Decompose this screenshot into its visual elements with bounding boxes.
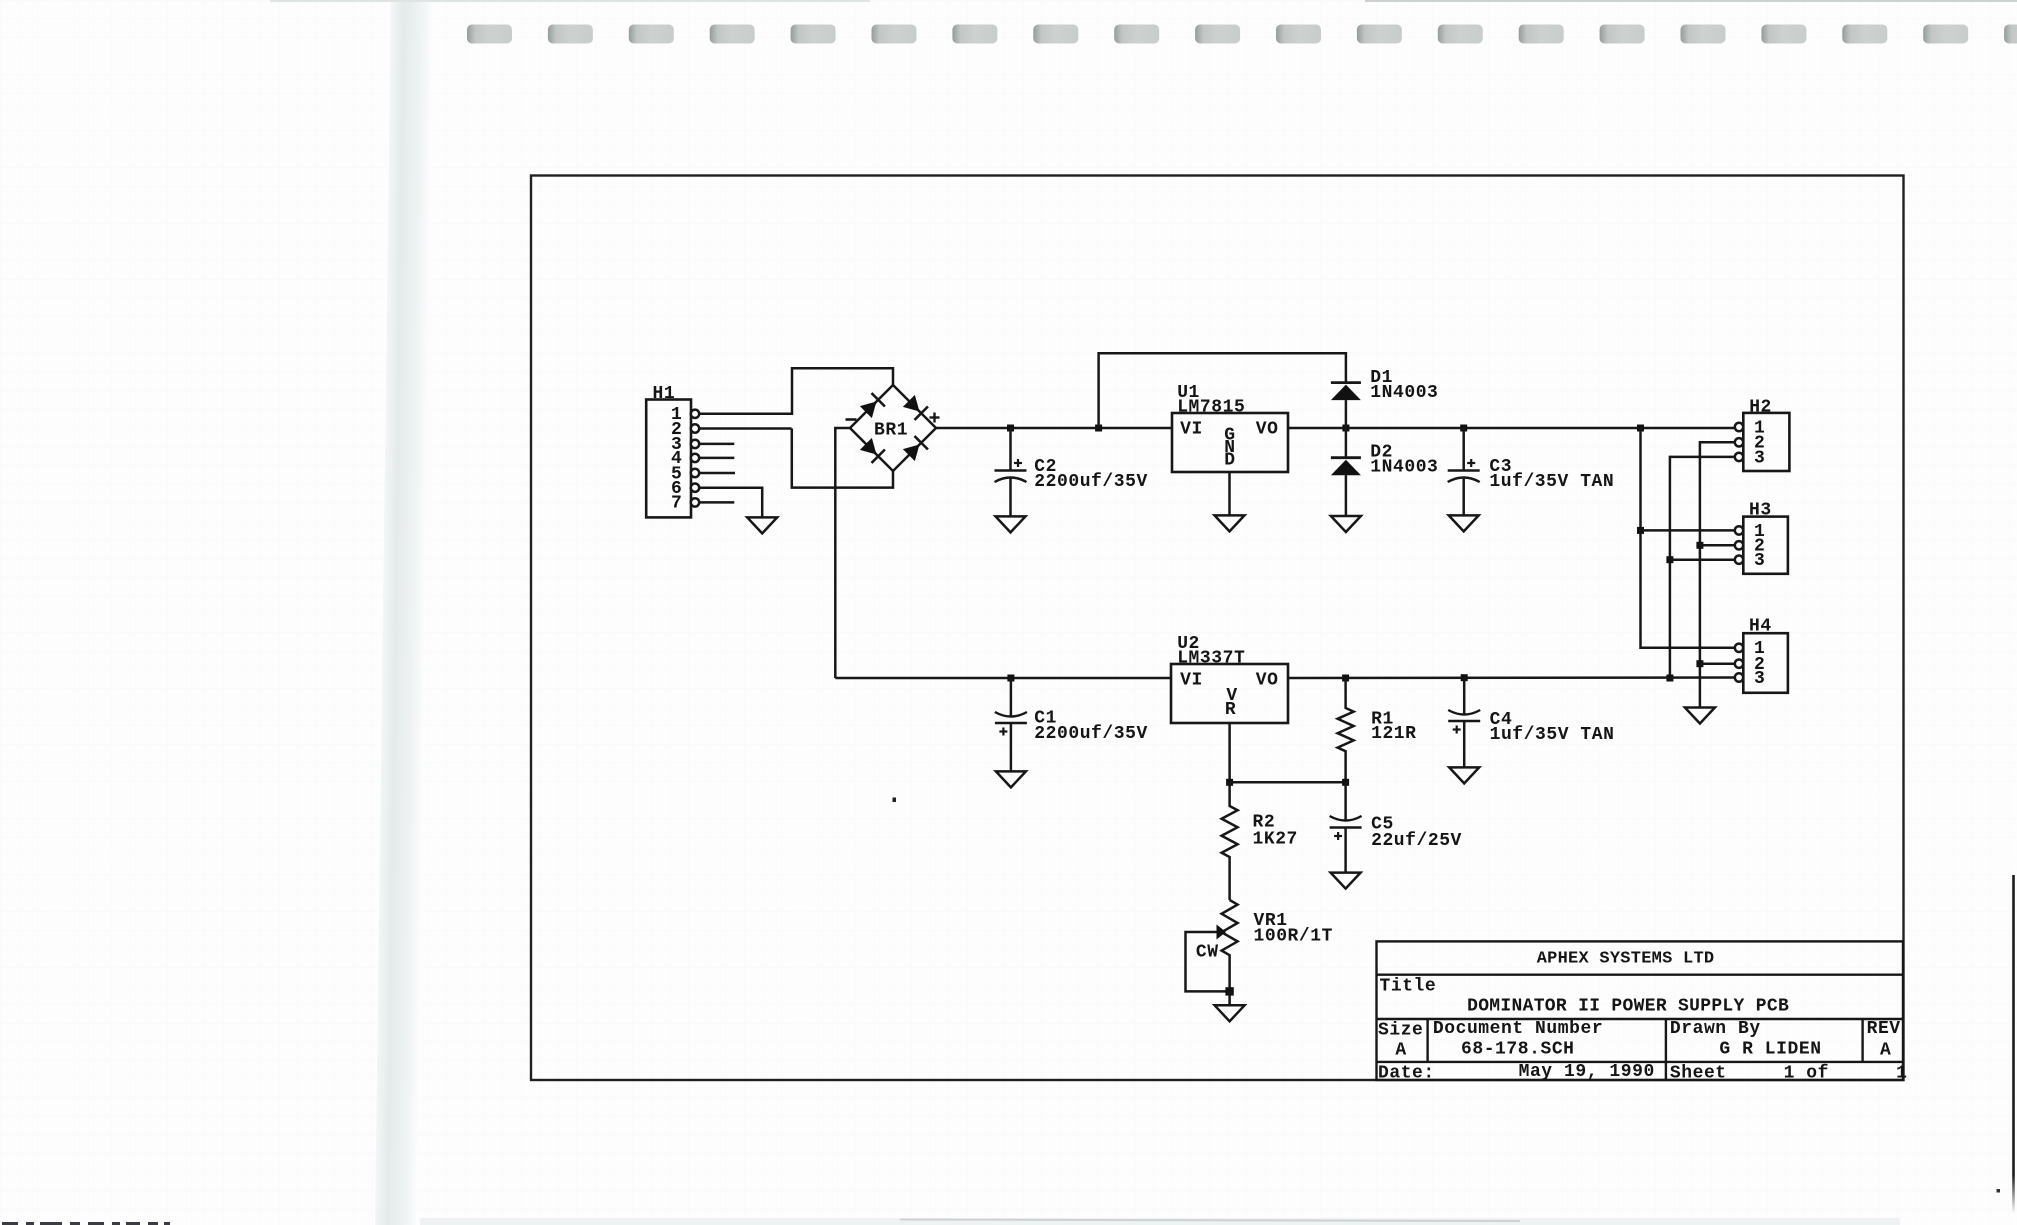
H1 pin 7 circle <box>691 498 699 506</box>
svg-text:DOMINATOR II POWER SUPPLY PCB: DOMINATOR II POWER SUPPLY PCB <box>1467 996 1789 1016</box>
wire stub H1 pin7 <box>699 501 734 504</box>
H1 label <box>653 384 676 404</box>
wire GND bus from H2 pin2 down to ground <box>1700 442 1736 707</box>
capacitor C3 <box>1448 428 1480 515</box>
svg-text:1K27: 1K27 <box>1253 829 1298 849</box>
H1 pin 6 circle <box>691 484 699 492</box>
svg-text:Title: Title <box>1380 976 1437 996</box>
node: -V unregulated rail (bridge minus to U2 VI) <box>835 677 1171 680</box>
junction D1/D2 on +15V rail <box>1342 425 1349 432</box>
svg-text:7: 7 <box>671 494 682 514</box>
wire -15V branch to H3 pin3 <box>1670 558 1736 561</box>
junction ADJ node at U2 pin <box>1226 779 1233 786</box>
BR1 plus mark <box>930 413 940 423</box>
ground at C2 <box>996 516 1026 532</box>
wire -15V bus from H2 pin3 down to -15V rail <box>1670 457 1736 678</box>
H2 pin numbers <box>1754 418 1765 468</box>
svg-text:D: D <box>1224 450 1235 470</box>
svg-text:BR1: BR1 <box>874 421 908 441</box>
C5 label <box>1371 814 1462 851</box>
resistor R1 121R <box>1338 678 1354 782</box>
junction -15V bus at H3 pin3 <box>1666 556 1673 563</box>
wire ADJ node to R1/C5 <box>1230 781 1346 784</box>
U1 pin name VO <box>1256 420 1279 440</box>
node: +15V rail (U1 VO to H2 pin1) <box>1288 427 1736 430</box>
junction R1 on -15V rail <box>1342 675 1349 682</box>
H2 label <box>1749 397 1772 417</box>
wire stub H1 pin4 <box>699 457 734 460</box>
svg-text:Sheet: Sheet <box>1670 1064 1727 1084</box>
svg-text:REV: REV <box>1867 1019 1901 1039</box>
junction -15V bus on -15V rail <box>1666 675 1673 682</box>
H4 pin numbers <box>1754 639 1765 689</box>
wire stub H1 pin5 <box>699 472 735 475</box>
junction C3 on +15V rail <box>1460 425 1467 432</box>
resistor R2 1K27 <box>1222 782 1238 900</box>
wire U1 GND pin to ground <box>1228 472 1231 515</box>
title block horizontal dividers <box>1377 975 1904 1062</box>
U1 reference label <box>1177 383 1245 418</box>
svg-text:LM337T: LM337T <box>1177 648 1245 668</box>
U1 pin name GND <box>1224 425 1235 470</box>
R2 label <box>1253 813 1298 850</box>
D2 label <box>1370 443 1438 478</box>
wire VR1 bottom to ground <box>1228 991 1231 1005</box>
H1 pin 2 circle <box>691 424 699 432</box>
H3 pin 3 circle <box>1735 556 1743 564</box>
title block outer frame <box>1377 941 1904 1080</box>
svg-text:1uf/35V TAN: 1uf/35V TAN <box>1489 472 1614 492</box>
H3 pin numbers <box>1754 522 1765 571</box>
svg-text:A: A <box>1880 1041 1891 1061</box>
H3 pin 1 circle <box>1735 526 1743 534</box>
Date field <box>1378 1062 1655 1083</box>
svg-text:APHEX SYSTEMS LTD: APHEX SYSTEMS LTD <box>1537 949 1715 968</box>
svg-text:Size: Size <box>1378 1021 1423 1041</box>
svg-text:H1: H1 <box>653 384 676 404</box>
H4 pin 2 circle <box>1735 660 1743 668</box>
title block vertical dividers <box>1428 1019 1863 1080</box>
CW label <box>1196 942 1219 962</box>
svg-text:R: R <box>1225 700 1236 720</box>
wire U1 input bypass to D1 <box>1099 353 1346 428</box>
svg-text:2200uf/35V: 2200uf/35V <box>1034 472 1148 492</box>
H1 pin 4 circle <box>691 454 699 462</box>
svg-text:H4: H4 <box>1749 617 1772 637</box>
svg-text:VO: VO <box>1256 670 1279 690</box>
C3 label <box>1489 457 1614 492</box>
svg-text:G R LIDEN: G R LIDEN <box>1719 1039 1821 1059</box>
ground at C4 <box>1449 767 1479 783</box>
C4 label <box>1490 710 1615 745</box>
H4 pin 3 circle <box>1735 673 1743 681</box>
wire +15V branch to H3 pin1 <box>1641 529 1737 532</box>
wire H1 pin6 to ground <box>699 488 762 518</box>
Document Number field <box>1433 1019 1603 1059</box>
BR1 diode lower-right <box>902 436 928 462</box>
potentiometer VR1 100R/1T <box>1222 900 1238 991</box>
ground at C5 <box>1331 873 1361 889</box>
junction +15V distribution bus on rail <box>1637 425 1644 432</box>
wire GND branch to H4 pin2 <box>1700 662 1736 665</box>
BR1 diode lower-left <box>859 437 885 463</box>
U1 pin name VI <box>1180 420 1203 440</box>
svg-text:100R/1T: 100R/1T <box>1254 926 1333 946</box>
junction ADJ node at R1/C5 <box>1342 779 1349 786</box>
capacitor C4 <box>1448 678 1480 767</box>
junction GND bus at H4 pin2 <box>1696 660 1703 667</box>
svg-text:121R: 121R <box>1371 724 1416 744</box>
svg-text:Document Number: Document Number <box>1433 1019 1603 1039</box>
junction GND bus at H3 pin2 <box>1696 542 1703 549</box>
D1 label <box>1370 368 1438 403</box>
U2 pin name VO <box>1256 670 1279 690</box>
wire H1 pin2 to bridge AC bottom <box>699 429 893 488</box>
wire stub H1 pin3 <box>699 443 734 446</box>
H3 label <box>1749 501 1772 521</box>
svg-text:3: 3 <box>1754 551 1765 571</box>
voltage regulator U1 LM7815 <box>1172 413 1288 472</box>
H1 pin 3 circle <box>691 440 699 448</box>
connector H2 <box>1743 413 1789 471</box>
H2 pin 3 circle <box>1735 453 1743 461</box>
ground at D2 <box>1331 516 1361 532</box>
svg-text:Date:: Date: <box>1378 1064 1435 1084</box>
VR1 wiper arrow <box>1217 925 1227 940</box>
wire bridge minus output down to negative rail <box>835 428 850 678</box>
Sheet field <box>1670 1064 1908 1084</box>
diode D2 1N4003 <box>1331 428 1361 516</box>
svg-text:LM7815: LM7815 <box>1177 398 1245 418</box>
H4 pin 1 circle <box>1735 644 1743 652</box>
svg-text:22uf/25V: 22uf/25V <box>1371 831 1462 851</box>
H2 pin 2 circle <box>1735 438 1743 446</box>
svg-text:VI: VI <box>1180 670 1203 690</box>
ground at connector bus <box>1685 708 1715 724</box>
Title field label <box>1380 976 1437 996</box>
connector H3 <box>1743 517 1788 574</box>
junction C1 on -rail <box>1007 675 1014 682</box>
schematic title text <box>1467 996 1789 1016</box>
U2 pin name VR (adjust) <box>1225 686 1238 720</box>
wire VR1 wiper to bottom terminal <box>1186 932 1230 991</box>
capacitor C2 <box>995 428 1027 516</box>
svg-text:CW: CW <box>1196 942 1219 962</box>
svg-text:VO: VO <box>1256 420 1279 440</box>
H1 pin numbers 1-7 <box>671 405 682 514</box>
capacitor C5 <box>1330 782 1362 872</box>
svg-text:1uf/35V TAN: 1uf/35V TAN <box>1490 725 1615 745</box>
company name text <box>1537 949 1715 968</box>
connector H1 <box>646 400 691 518</box>
svg-text:Drawn By: Drawn By <box>1670 1019 1761 1039</box>
BR1 diode upper-left <box>859 393 885 419</box>
H1 pin 1 circle <box>691 410 699 418</box>
junction VR1 bottom <box>1225 987 1233 995</box>
Drawn By field <box>1670 1019 1822 1059</box>
VR1 label <box>1254 911 1333 946</box>
svg-text:H3: H3 <box>1749 501 1772 521</box>
BR1 minus mark <box>846 418 857 421</box>
svg-text:A: A <box>1395 1041 1406 1061</box>
svg-text:68-178.SCH: 68-178.SCH <box>1461 1039 1575 1059</box>
H1 pin 5 circle <box>691 469 699 477</box>
wire GND branch to H3 pin2 <box>1700 544 1736 547</box>
junction bypass riser on +rail <box>1095 425 1102 432</box>
svg-text:1N4003: 1N4003 <box>1370 383 1438 403</box>
svg-text:VI: VI <box>1180 420 1203 440</box>
svg-text:3: 3 <box>1754 669 1765 689</box>
ground at C3 <box>1449 515 1479 531</box>
BR1 diode upper-right <box>902 394 928 420</box>
wire U2 ADJ pin down <box>1228 723 1231 782</box>
node: +V unregulated rail (bridge + to U1 VI) <box>936 427 1172 430</box>
wire +15V bus down to H3/H4 pin1 <box>1641 428 1737 648</box>
svg-text:2200uf/35V: 2200uf/35V <box>1034 724 1148 744</box>
node: -15V rail (U2 VO to H4 pin3) <box>1288 676 1736 679</box>
svg-text:1 of: 1 of <box>1784 1064 1829 1084</box>
junction +15V bus at H3 branch <box>1637 527 1644 534</box>
junction C4 on -15V rail <box>1461 674 1468 681</box>
ground at H1 pin6 <box>747 517 777 533</box>
BR1 label <box>874 421 908 441</box>
H3 pin 2 circle <box>1735 541 1743 549</box>
voltage regulator U2 LM337T <box>1171 664 1288 723</box>
Size field <box>1378 1021 1423 1061</box>
bridge rectifier BR1 body <box>850 385 936 471</box>
C1 label <box>1034 708 1148 743</box>
svg-text:H2: H2 <box>1749 397 1772 417</box>
U2 pin name VI <box>1180 670 1203 690</box>
diode D1 1N4003 <box>1331 383 1361 428</box>
wire H1 pin1 to bridge AC top <box>699 368 893 414</box>
svg-text:3: 3 <box>1754 448 1765 468</box>
ground at C1 <box>996 771 1026 787</box>
R1 label <box>1371 709 1416 744</box>
U2 reference label <box>1177 634 1245 669</box>
REV field <box>1867 1019 1901 1061</box>
ground at U1 <box>1215 515 1245 531</box>
H2 pin 1 circle <box>1735 423 1743 431</box>
capacitor C1 <box>995 678 1027 771</box>
H4 label <box>1749 617 1772 637</box>
ground at VR1 <box>1215 1005 1245 1021</box>
junction C2 on +rail <box>1007 425 1014 432</box>
svg-text:May 19, 1990: May 19, 1990 <box>1519 1062 1655 1082</box>
svg-text:1N4003: 1N4003 <box>1370 457 1438 477</box>
connector H4 <box>1743 633 1788 693</box>
svg-text:1: 1 <box>1896 1064 1907 1084</box>
C2 label <box>1034 457 1148 492</box>
